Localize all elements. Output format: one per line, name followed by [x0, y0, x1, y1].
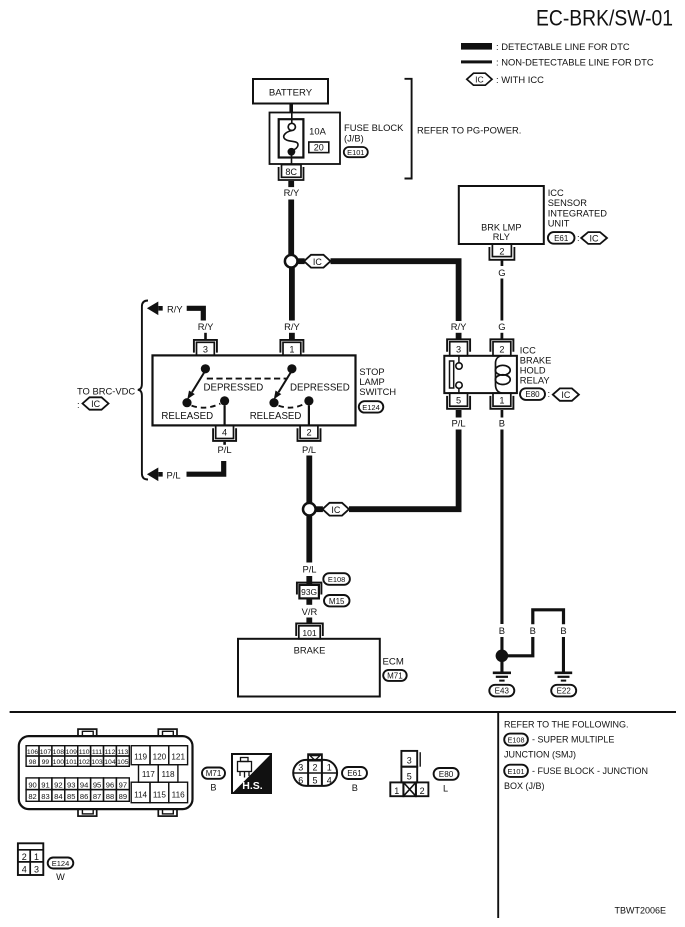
svg-text:ICC: ICC	[520, 345, 536, 355]
fuse block box	[270, 113, 341, 165]
svg-text:1: 1	[394, 786, 399, 796]
svg-text:HOLD: HOLD	[520, 366, 546, 376]
svg-text:E101: E101	[347, 148, 364, 157]
M15 oval	[324, 595, 350, 606]
svg-text:JUNCTION (SMJ): JUNCTION (SMJ)	[504, 750, 576, 760]
svg-text:DEPRESSED: DEPRESSED	[290, 382, 350, 393]
svg-text:2: 2	[306, 428, 311, 438]
relay pin 3	[447, 339, 470, 356]
svg-text:- FUSE BLOCK - JUNCTION: - FUSE BLOCK - JUNCTION	[532, 766, 648, 776]
svg-text:110: 110	[79, 749, 90, 756]
relay switch bar	[450, 361, 454, 388]
svg-text:101: 101	[66, 759, 78, 766]
svg-text:SENSOR: SENSOR	[548, 198, 588, 208]
svg-text:85: 85	[67, 792, 75, 801]
svg-text:94: 94	[80, 780, 88, 789]
wire stub pin 4	[223, 442, 226, 445]
relay contact upper	[458, 356, 460, 363]
svg-text:B: B	[352, 783, 358, 793]
wire junction right	[508, 637, 533, 656]
svg-text:RELEASED: RELEASED	[250, 411, 302, 422]
svg-text:B: B	[499, 418, 505, 429]
svg-text:105: 105	[117, 759, 129, 766]
svg-text:B: B	[530, 625, 536, 636]
svg-text:R/Y: R/Y	[167, 303, 183, 314]
released contact dot left	[182, 398, 191, 407]
svg-text:(J/B): (J/B)	[344, 133, 364, 144]
legend non-detectable line	[461, 57, 654, 68]
svg-text:108: 108	[53, 749, 65, 756]
wire dot to pin 4	[224, 405, 226, 425]
svg-text:R/Y: R/Y	[284, 321, 300, 332]
svg-text:R/Y: R/Y	[198, 321, 214, 332]
thick wire node B to relay pin 5	[349, 430, 459, 510]
wire stub relay pin 5	[456, 410, 462, 418]
svg-text:3: 3	[407, 756, 412, 766]
svg-text:115: 115	[153, 791, 166, 800]
wire bridge middle up	[533, 610, 564, 624]
IC hexagon brc-vdc	[83, 397, 109, 409]
svg-text:E124: E124	[362, 403, 380, 412]
svg-text:V/R: V/R	[302, 606, 318, 617]
wire arrow P/L from pin 4	[187, 461, 224, 474]
svg-text:102: 102	[78, 759, 90, 766]
svg-text:E61: E61	[347, 769, 362, 778]
svg-text:1: 1	[327, 762, 332, 772]
svg-text:103: 103	[91, 759, 103, 766]
svg-text:116: 116	[172, 791, 185, 800]
legend detectable line	[461, 41, 630, 52]
svg-text:3: 3	[203, 345, 208, 355]
switch arm left	[192, 371, 205, 393]
pin 2 contact dot	[304, 396, 313, 405]
svg-text:G: G	[498, 321, 505, 332]
wire G down	[501, 279, 504, 321]
svg-text:H.S.: H.S.	[242, 780, 263, 792]
battery	[253, 79, 328, 104]
ICC sensor integrated unit box	[459, 186, 544, 244]
wire stub pin 1	[289, 333, 295, 340]
svg-text:101: 101	[302, 628, 317, 638]
svg-text::: :	[77, 399, 80, 410]
svg-text:REFER TO PG-POWER.: REFER TO PG-POWER.	[417, 125, 521, 136]
wire stub to 93G	[306, 576, 312, 585]
switch contact dot pin3	[201, 364, 210, 373]
svg-text:3: 3	[34, 864, 39, 874]
switch contact dot pin1	[287, 364, 296, 373]
IC hexagon node A	[304, 255, 331, 268]
wire stub relay pin 1	[501, 410, 504, 418]
svg-text:BATTERY: BATTERY	[269, 87, 313, 98]
svg-text:84: 84	[54, 792, 62, 801]
M71 grid	[26, 746, 188, 803]
wire stub pin 3	[204, 333, 207, 340]
wire stub to relay pin 2	[501, 333, 504, 340]
svg-text:5: 5	[407, 771, 412, 781]
svg-text:10A: 10A	[309, 126, 326, 137]
svg-text:113: 113	[117, 749, 128, 756]
svg-text:106: 106	[27, 749, 39, 756]
thick wire node A to pin 1	[289, 268, 295, 321]
HS view symbol	[232, 754, 271, 793]
stop lamp switch box	[153, 355, 356, 425]
E108 oval	[323, 573, 350, 585]
node B circle	[303, 503, 316, 516]
svg-text:88: 88	[106, 792, 114, 801]
svg-text:91: 91	[41, 780, 49, 789]
svg-text:8C: 8C	[285, 167, 297, 177]
pin 4 stop lamp switch	[213, 425, 236, 441]
svg-text:B: B	[560, 625, 566, 636]
relay pin 1	[490, 393, 513, 409]
svg-text:86: 86	[80, 792, 88, 801]
svg-text:M71: M71	[387, 672, 403, 681]
wire B down	[500, 430, 503, 625]
svg-text:120: 120	[153, 753, 167, 762]
stub node A to IC	[298, 258, 305, 264]
junction dot B	[496, 650, 509, 663]
svg-text:100: 100	[53, 759, 65, 766]
svg-text:ICC: ICC	[548, 188, 564, 198]
TO BRC-VDC label	[77, 385, 135, 410]
pin 4 contact dot	[220, 396, 229, 405]
svg-text:2: 2	[420, 786, 425, 796]
svg-text:107: 107	[40, 749, 52, 756]
node A circle	[285, 255, 298, 268]
svg-text:4: 4	[22, 864, 27, 874]
svg-text:- SUPER MULTIPLE: - SUPER MULTIPLE	[532, 735, 614, 745]
relay contact lower	[456, 382, 462, 388]
pin 2 BRK LMP RLY	[489, 244, 514, 260]
svg-text:93G: 93G	[301, 587, 317, 597]
refer to the following text	[504, 720, 648, 791]
svg-text:REFER TO THE FOLLOWING.: REFER TO THE FOLLOWING.	[504, 720, 629, 730]
arrow P/L	[147, 468, 181, 482]
stop lamp switch labels	[359, 367, 396, 413]
pin 1 stop lamp switch	[280, 340, 303, 356]
svg-text:BRK LMP: BRK LMP	[481, 223, 521, 233]
svg-text:95: 95	[93, 780, 101, 789]
svg-text:P/L: P/L	[302, 444, 316, 455]
svg-text:R/Y: R/Y	[284, 187, 300, 198]
svg-text:118: 118	[162, 770, 175, 779]
wire stub G	[501, 260, 504, 266]
svg-text:W: W	[56, 872, 65, 882]
svg-text:E80: E80	[439, 770, 454, 779]
svg-text:114: 114	[134, 791, 147, 800]
svg-text:RLY: RLY	[493, 232, 510, 242]
dashed arc right	[279, 404, 305, 408]
fuse block label + E101	[344, 122, 404, 157]
connector E61	[293, 754, 367, 793]
svg-text:2: 2	[499, 246, 504, 256]
relay pin 5	[447, 393, 470, 409]
svg-text:89: 89	[119, 792, 127, 801]
connector E80	[390, 751, 458, 796]
connector E124	[18, 843, 73, 882]
svg-text:DEPRESSED: DEPRESSED	[204, 382, 264, 393]
ECM labels	[383, 656, 407, 681]
svg-text:SWITCH: SWITCH	[359, 387, 396, 397]
svg-text:6: 6	[298, 775, 303, 785]
svg-text:FUSE BLOCK: FUSE BLOCK	[344, 122, 404, 133]
svg-text:IC: IC	[561, 390, 571, 400]
svg-text:IC: IC	[91, 399, 101, 409]
wire stub to pin 101	[306, 618, 312, 624]
svg-text:L: L	[443, 784, 448, 794]
legend IC hexagon	[467, 73, 544, 85]
svg-text:87: 87	[93, 792, 101, 801]
svg-text:111: 111	[92, 749, 103, 756]
svg-text:: WITH ICC: : WITH ICC	[496, 74, 544, 85]
switch arm right	[279, 371, 292, 393]
svg-text:98: 98	[29, 759, 37, 766]
separator line	[10, 711, 676, 713]
svg-text:R/Y: R/Y	[451, 321, 467, 332]
svg-text:93: 93	[67, 780, 75, 789]
SMJ connector 93G	[297, 583, 322, 599]
svg-text:1: 1	[34, 852, 39, 862]
stub node B to IC	[316, 506, 323, 512]
IC hexagon E61	[581, 232, 607, 244]
svg-text:E43: E43	[495, 687, 510, 696]
svg-text:5: 5	[312, 775, 317, 785]
M71 oval label	[202, 768, 225, 793]
E61 oval label	[548, 232, 580, 244]
svg-text:3: 3	[298, 762, 303, 772]
svg-text:G: G	[498, 267, 505, 278]
wire stub below 8C	[288, 181, 294, 187]
thick wire node A right and down to relay pin 3	[331, 261, 459, 321]
svg-text:TO BRC-VDC: TO BRC-VDC	[77, 385, 135, 396]
svg-text:STOP: STOP	[359, 367, 384, 377]
bracket refer to pg-power	[405, 79, 522, 179]
svg-text:E22: E22	[557, 687, 572, 696]
svg-text:ECM: ECM	[383, 656, 404, 667]
svg-text:96: 96	[106, 780, 114, 789]
svg-text:E108: E108	[507, 736, 524, 745]
svg-text:92: 92	[54, 780, 62, 789]
svg-text:117: 117	[142, 770, 155, 779]
svg-text:E108: E108	[328, 575, 346, 584]
svg-text:119: 119	[134, 753, 147, 762]
wire stub below 93G	[306, 598, 312, 604]
wire dot to pin 2	[308, 405, 310, 425]
pin 8C fuse block	[279, 165, 304, 180]
svg-text:M71: M71	[206, 769, 222, 778]
svg-text:2: 2	[312, 762, 317, 772]
svg-text:97: 97	[119, 780, 127, 789]
svg-text:P/L: P/L	[167, 469, 181, 480]
svg-text:99: 99	[42, 759, 50, 766]
released contact dot right	[269, 398, 278, 407]
svg-text:IC: IC	[313, 257, 323, 267]
svg-text:3: 3	[456, 344, 461, 354]
svg-text:E124: E124	[52, 859, 70, 868]
dashed arc left	[192, 404, 221, 408]
IC hexagon node B	[323, 503, 350, 516]
wire node B down	[306, 516, 312, 563]
connector M71 shell	[19, 729, 193, 816]
svg-text:TBWT2006E: TBWT2006E	[614, 905, 666, 915]
svg-text:4: 4	[327, 775, 332, 785]
svg-text:B: B	[210, 783, 216, 793]
svg-text:IC: IC	[475, 75, 484, 85]
ICC sensor labels	[548, 188, 608, 228]
wire B right down to ground	[562, 637, 565, 672]
svg-text:RELEASED: RELEASED	[161, 411, 213, 422]
svg-text:P/L: P/L	[452, 418, 466, 429]
svg-text:LAMP: LAMP	[359, 377, 384, 387]
svg-text:BRAKE: BRAKE	[520, 355, 552, 365]
dashed gang link	[207, 378, 287, 380]
svg-text:IC: IC	[590, 233, 600, 243]
svg-text:83: 83	[41, 792, 49, 801]
pin 2 stop lamp switch	[298, 425, 321, 441]
svg-text:P/L: P/L	[218, 444, 232, 455]
pin 101 ECM	[296, 623, 323, 638]
svg-text:109: 109	[66, 749, 78, 756]
vertical divider	[497, 712, 499, 918]
ECM box	[238, 639, 380, 697]
left brace bracket	[138, 301, 148, 480]
svg-text:82: 82	[28, 792, 36, 801]
svg-text:M15: M15	[329, 597, 345, 606]
svg-text:5: 5	[456, 395, 461, 405]
svg-text:IC: IC	[331, 505, 341, 515]
svg-text:4: 4	[222, 428, 227, 438]
svg-text:90: 90	[28, 780, 36, 789]
relay labels	[520, 345, 552, 400]
svg-text:EC-BRK/SW-01: EC-BRK/SW-01	[536, 6, 673, 31]
svg-text:20: 20	[314, 143, 324, 153]
svg-text:104: 104	[104, 759, 116, 766]
svg-text:1: 1	[499, 395, 504, 405]
svg-text:121: 121	[171, 753, 185, 762]
svg-text:1: 1	[289, 345, 294, 355]
arrow R/Y to brc-vdc	[147, 302, 183, 316]
thick wire pin 2 to node B	[306, 456, 312, 503]
relay pin 2	[490, 339, 513, 356]
svg-text:BRAKE: BRAKE	[294, 644, 326, 655]
svg-text:2: 2	[499, 344, 504, 354]
wire dot to ground E43	[500, 662, 503, 672]
svg-text:112: 112	[105, 749, 116, 756]
IC hexagon E80	[553, 388, 579, 400]
pin 3 stop lamp switch	[194, 340, 217, 356]
svg-text:E80: E80	[525, 390, 540, 399]
wire stub to relay pin 3	[456, 333, 462, 340]
ICC brake hold relay box	[444, 356, 517, 393]
wire R/Y down to node A	[288, 200, 294, 255]
ground E43	[489, 673, 514, 697]
svg-text:BOX (J/B): BOX (J/B)	[504, 781, 545, 791]
fuse 10A 20	[279, 113, 329, 165]
wire B to junction	[500, 637, 503, 650]
relay coil	[495, 356, 510, 393]
svg-text:2: 2	[22, 852, 27, 862]
svg-text::: :	[577, 233, 580, 243]
svg-text:E61: E61	[554, 234, 569, 243]
svg-text:: NON-DETECTABLE LINE FOR DTC: : NON-DETECTABLE LINE FOR DTC	[496, 57, 654, 68]
svg-text:P/L: P/L	[302, 564, 316, 575]
svg-text:RELAY: RELAY	[520, 376, 550, 386]
svg-text:E101: E101	[507, 767, 524, 776]
wire battery to fuse block	[289, 104, 293, 114]
svg-text::: :	[548, 389, 551, 399]
ground E22	[551, 673, 576, 697]
svg-text:B: B	[499, 625, 505, 636]
svg-text:: DETECTABLE LINE FOR DTC: : DETECTABLE LINE FOR DTC	[496, 41, 630, 52]
svg-text:UNIT: UNIT	[548, 218, 570, 228]
wire arrow R/Y to pin 3	[187, 308, 204, 320]
svg-text:INTEGRATED: INTEGRATED	[548, 208, 608, 218]
